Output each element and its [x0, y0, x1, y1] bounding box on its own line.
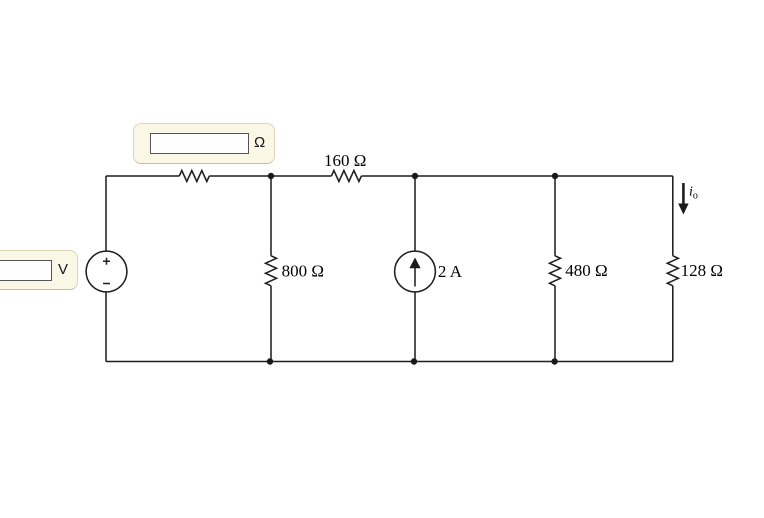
wire: top rail left segment: [106, 175, 179, 177]
current arrow i_o: [678, 183, 688, 215]
wire: bottom rail: [106, 361, 673, 363]
wire: 800 ohm branch lower: [270, 286, 272, 362]
wire: left branch lower: [105, 292, 107, 362]
voltage source V1: [86, 251, 127, 292]
svg-text:160 Ω: 160 Ω: [324, 151, 366, 170]
node: top of current source: [412, 173, 418, 179]
wire: 480 ohm branch lower: [554, 286, 556, 362]
node: top of 480 ohm: [552, 173, 558, 179]
resistor 480 ohm (vertical): [550, 256, 561, 286]
resistor 160 ohm (horizontal): [331, 171, 361, 182]
wire: left branch upper: [105, 176, 107, 251]
node: bottom of 800 ohm: [267, 358, 273, 364]
wire: right branch upper: [672, 176, 674, 256]
svg-text:io: io: [689, 185, 698, 202]
resistor 128 ohm (vertical): [667, 256, 678, 286]
node: bottom of current source: [411, 358, 417, 364]
resistor R1 (unknown value, horizontal): [179, 171, 209, 182]
wire: 480 ohm branch upper: [554, 176, 556, 256]
resistance input box (Ω): [0, 0, 764, 1]
wire: top rail right segment: [361, 175, 672, 177]
voltage source input box (V): [0, 0, 764, 1]
wire: top rail between R1 and 160 ohm: [209, 175, 331, 177]
svg-text:480 Ω: 480 Ω: [565, 261, 607, 280]
wire: right branch lower: [672, 286, 674, 362]
current source 2 A: [395, 251, 436, 292]
svg-text:128 Ω: 128 Ω: [681, 261, 723, 280]
svg-text:800 Ω: 800 Ω: [282, 261, 324, 280]
wire: 800 ohm branch upper: [270, 176, 272, 256]
node: bottom of 480 ohm: [551, 358, 557, 364]
wire: current source branch lower: [414, 292, 416, 362]
wire: current source branch upper: [414, 176, 416, 251]
svg-text:2 A: 2 A: [438, 262, 463, 281]
resistor 800 ohm (vertical): [266, 256, 277, 286]
node: top of 800 ohm: [268, 173, 274, 179]
